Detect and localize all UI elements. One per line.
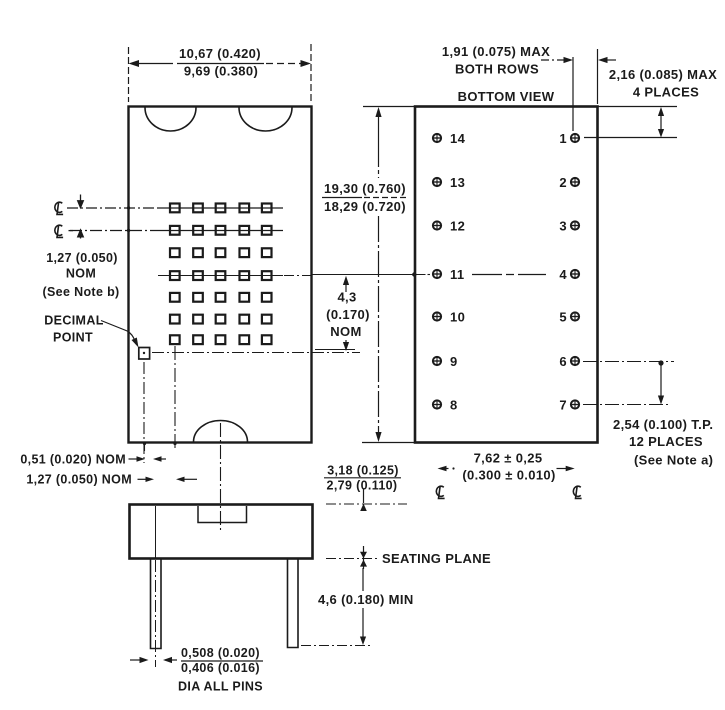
svg-text:2,79 (0.110): 2,79 (0.110)	[327, 479, 398, 493]
pin bottom reference line	[301, 645, 372, 647]
svg-text:5: 5	[559, 309, 567, 324]
centerline row 2	[70, 230, 283, 232]
front view package outline	[129, 107, 312, 443]
pin1 centerline extension up	[572, 57, 574, 131]
pin 7 row centerline	[583, 404, 669, 406]
dim 2,54	[658, 360, 663, 365]
svg-text:3,18 (0.125): 3,18 (0.125)	[327, 464, 399, 478]
dim 4,3 bottom reference line	[315, 349, 355, 351]
CL symbol right column	[573, 486, 581, 499]
left pin	[151, 559, 162, 649]
pin 10	[433, 312, 441, 320]
svg-text:6: 6	[559, 354, 567, 369]
bottom bump (lens)	[194, 421, 248, 443]
pin 14	[433, 134, 441, 142]
svg-text:1,27 (0.050): 1,27 (0.050)	[46, 251, 118, 265]
svg-text:DIA ALL PINS: DIA ALL PINS	[178, 680, 263, 694]
vertical centerline bump/body	[220, 423, 222, 531]
svg-text:7: 7	[559, 397, 567, 412]
svg-text:9,69 (0.380): 9,69 (0.380)	[184, 64, 258, 79]
svg-text:11: 11	[450, 267, 464, 282]
svg-text:0,406 (0.016): 0,406 (0.016)	[181, 661, 260, 675]
vertical centerline from decimal point	[143, 362, 145, 463]
svg-text:4: 4	[559, 267, 567, 282]
svg-text:1,91 (0.075) MAX: 1,91 (0.075) MAX	[442, 44, 550, 59]
seating plane	[326, 558, 379, 560]
pins and numbers	[433, 131, 579, 413]
decimal point row centerline	[152, 352, 360, 354]
junction dots left edge	[127, 206, 130, 209]
svg-text:(0.170): (0.170)	[326, 307, 370, 322]
svg-text:SEATING PLANE: SEATING PLANE	[382, 551, 491, 566]
svg-text:4 PLACES: 4 PLACES	[633, 85, 699, 100]
svg-text:0,51 (0.020) NOM: 0,51 (0.020) NOM	[20, 453, 126, 467]
pin1 row line right	[584, 137, 677, 139]
CL symbol left column	[436, 486, 444, 499]
svg-text:BOTH ROWS: BOTH ROWS	[455, 62, 539, 77]
svg-text:13: 13	[450, 175, 465, 190]
svg-text:14: 14	[450, 131, 466, 146]
dim 0,508/0,406 DIA ALL PINS	[130, 659, 177, 661]
pin 9	[433, 357, 441, 365]
svg-text:9: 9	[450, 354, 458, 369]
svg-text:4,6 (0.180) MIN: 4,6 (0.180) MIN	[318, 592, 414, 607]
svg-text:10,67 (0.420): 10,67 (0.420)	[179, 46, 261, 61]
junction dot row4/edge	[412, 272, 416, 276]
svg-text:2,54 (0.100) T.P.: 2,54 (0.100) T.P.	[613, 417, 713, 432]
top edge extensions	[363, 106, 415, 108]
svg-text:3: 3	[559, 218, 567, 233]
pin 13	[433, 178, 441, 186]
pin 6 row centerline	[583, 361, 674, 363]
svg-text:12 PLACES: 12 PLACES	[629, 434, 703, 449]
svg-text:10: 10	[450, 309, 465, 324]
1,27 row-pitch arrows	[69, 195, 84, 239]
side view top notch	[198, 506, 247, 523]
svg-text:(See Note b): (See Note b)	[42, 285, 119, 299]
dimension 10,67/9,69 top	[129, 44, 312, 102]
svg-text:DECIMAL: DECIMAL	[44, 314, 103, 328]
svg-text:8: 8	[450, 397, 458, 412]
svg-text:(0.300 ± 0.010): (0.300 ± 0.010)	[462, 468, 555, 483]
svg-text:12: 12	[450, 218, 465, 233]
svg-text:2: 2	[559, 175, 567, 190]
top notch right (lens recess)	[239, 108, 292, 132]
side view body	[130, 505, 313, 559]
5x7 dot matrix	[170, 204, 272, 345]
left pin centerline	[155, 506, 157, 558]
svg-text:0,508 (0.020): 0,508 (0.020)	[181, 646, 260, 660]
svg-text:(See Note a): (See Note a)	[634, 453, 713, 468]
pin 8	[433, 400, 441, 408]
svg-text:NOM: NOM	[66, 267, 96, 281]
vertical centerline from col 1	[174, 346, 176, 448]
dim 19,30 vertical	[378, 114, 380, 436]
CL symbol row 1	[55, 202, 63, 215]
top notch left (lens recess)	[145, 108, 196, 132]
pin 11-4 row dashes	[472, 274, 546, 276]
svg-text:2,16 (0.085) MAX: 2,16 (0.085) MAX	[609, 67, 717, 82]
right edge extension up	[597, 49, 599, 104]
CL symbol row 2	[55, 225, 63, 238]
pin 11	[433, 270, 441, 278]
svg-text:POINT: POINT	[53, 331, 93, 345]
pin 12	[433, 221, 441, 229]
centerline row 4 (through pin 11/4)	[158, 275, 430, 276]
svg-text:BOTTOM VIEW: BOTTOM VIEW	[458, 89, 555, 104]
svg-text:19,30 (0.760): 19,30 (0.760)	[324, 181, 406, 196]
svg-text:NOM: NOM	[330, 324, 361, 339]
svg-text:18,29 (0.720): 18,29 (0.720)	[324, 199, 406, 214]
right pin	[288, 559, 299, 648]
centerline row 1	[67, 207, 283, 209]
bottom view outline	[415, 107, 598, 443]
svg-text:1,27 (0.050) NOM: 1,27 (0.050) NOM	[26, 473, 132, 487]
svg-text:4,3: 4,3	[337, 290, 356, 305]
svg-text:7,62 ± 0,25: 7,62 ± 0,25	[474, 451, 543, 466]
decimal point square	[139, 348, 150, 360]
svg-text:1: 1	[559, 131, 567, 146]
